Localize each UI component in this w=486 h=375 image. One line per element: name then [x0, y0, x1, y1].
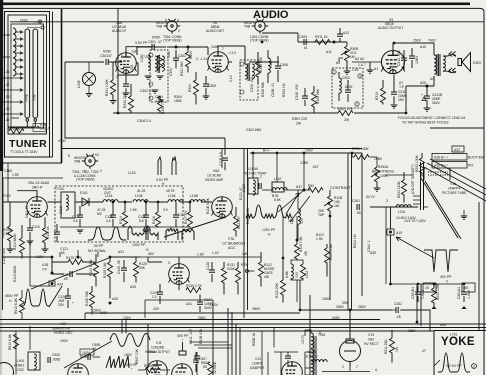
svg-text:14.5 70? 140V: 14.5 70? 140V [404, 219, 427, 223]
svg-text:R202 100K: R202 100K [415, 154, 419, 172]
flyback coil [311, 333, 313, 348]
svg-text:1.6V: 1.6V [352, 68, 360, 72]
wire to A37 [284, 189, 310, 191]
chevron arrows [449, 52, 456, 74]
svg-text:R301 100K: R301 100K [105, 78, 109, 96]
cap C911 vertical [194, 356, 200, 358]
left riser R309 [312, 92, 317, 107]
boxed label right bottom crt [462, 283, 475, 292]
svg-text:C281B1: C281B1 [411, 287, 415, 299]
svg-text:45.75: 45.75 [166, 189, 175, 193]
svg-text:1.4V: 1.4V [212, 251, 220, 255]
brightness pot [375, 167, 380, 182]
svg-text:2: 2 [356, 103, 358, 107]
svg-text:4.5: 4.5 [73, 219, 78, 223]
svg-text:8V 2.2K: 8V 2.2K [8, 127, 21, 131]
wire quad detector out [228, 61, 279, 63]
coil L201 [396, 205, 411, 207]
svg-text:L28: L28 [4, 95, 10, 99]
svg-text:AUDIO: AUDIO [253, 9, 289, 21]
tube V7B sync [169, 264, 190, 285]
svg-text:E101: E101 [80, 191, 88, 195]
TOP SHELF arrow label [33, 124, 46, 132]
svg-text:TUNER: TUNER [9, 138, 47, 150]
svg-text:25V: 25V [58, 303, 65, 307]
svg-text:R306 62K: R306 62K [259, 56, 263, 72]
svg-text:DAMPER: DAMPER [250, 366, 265, 370]
yoke pin circle [472, 364, 477, 369]
svg-text:A12: A12 [343, 31, 349, 35]
svg-text:HV RECT: HV RECT [364, 342, 379, 346]
components under V6: R304 [194, 80, 199, 95]
left edge wires [3, 178, 63, 238]
cap C305 [203, 84, 209, 86]
svg-text:50 PP: 50 PP [94, 244, 104, 248]
waveform 3.5V PP spikes [158, 157, 176, 175]
svg-text:C302: C302 [178, 54, 186, 58]
grounds in det box [77, 230, 84, 233]
V5A cathode resistor R112 [43, 228, 48, 243]
svg-text:41.5 MC TRAP: 41.5 MC TRAP [244, 172, 267, 176]
svg-text:TAB: TAB [74, 160, 81, 164]
resistor R203 220K vertical [402, 180, 407, 195]
cap C281A 1.4KV [463, 286, 465, 292]
V9 plate wire to T402 [393, 43, 434, 55]
svg-text:150V: 150V [60, 339, 69, 343]
svg-text:C112: C112 [59, 206, 63, 214]
svg-text:T102: T102 [3, 194, 11, 198]
resistor R110 680K [20, 238, 25, 253]
svg-text:C180: C180 [4, 169, 12, 173]
cap C128 [209, 270, 215, 272]
coil L903 [312, 360, 327, 362]
crt right edge echo line [478, 202, 480, 330]
svg-text:C911 .047: C911 .047 [189, 329, 193, 344]
svg-text:R252A: R252A [378, 165, 389, 169]
wire x148 v11 grid [148, 352, 156, 368]
wire riser x118 [117, 8, 119, 113]
cap C302 [173, 58, 179, 60]
resistor R306 vertical [256, 62, 261, 77]
resistor R507 vertical [208, 362, 213, 375]
svg-text:1: 1 [121, 53, 123, 57]
svg-text:C110? 600: C110? 600 [2, 248, 6, 264]
svg-text:3: 3 [116, 75, 118, 79]
svg-text:L30: L30 [4, 118, 10, 122]
cap A12 small [337, 34, 343, 36]
svg-text:280V: 280V [358, 305, 367, 309]
svg-text:R125 2.7K: R125 2.7K [66, 256, 83, 260]
resistor R52 horiz [308, 188, 323, 193]
strip bottom circles [26, 119, 29, 122]
audio section bottom rule [62, 148, 362, 150]
svg-text:150V: 150V [82, 351, 91, 355]
cap C412B electrolytic [426, 86, 428, 96]
B++ bus right [250, 152, 362, 154]
flyback core [314, 336, 316, 375]
coil L300 left of V5B [148, 55, 150, 70]
svg-text:(TOP VIEW): (TOP VIEW) [76, 178, 94, 182]
svg-text:15BV: 15BV [374, 157, 383, 161]
svg-text:L26: L26 [4, 70, 10, 74]
svg-text:HORIZ: HORIZ [14, 364, 24, 368]
damper cap [285, 356, 291, 358]
resistor R302 vertical left [129, 96, 134, 111]
svg-text:1.5K: 1.5K [130, 208, 138, 212]
audio bottom bus [113, 112, 333, 114]
T402 core [437, 54, 440, 76]
diagonal from waveform [64, 341, 112, 368]
T301 transformer dashed box [150, 50, 168, 102]
svg-text:L110: L110 [274, 177, 281, 181]
svg-text:1: 1 [333, 71, 335, 75]
trap coil box [248, 178, 258, 194]
wire y257 continuation [244, 256, 261, 258]
svg-text:V12: V12 [255, 357, 261, 361]
tuner mid box [8, 15, 47, 134]
svg-text:C305 .003: C305 .003 [250, 76, 254, 92]
resistor R251 100K [354, 155, 369, 160]
svg-text:C30B .01: C30B .01 [271, 83, 275, 97]
boxed label A30 pix [432, 162, 467, 169]
resistor R79 vertical [236, 268, 241, 283]
svg-text:3: 3 [386, 199, 388, 203]
svg-text:VTA: VTA [228, 237, 235, 241]
svg-text:L106: L106 [168, 194, 176, 198]
svg-text:A30 B+ +: A30 B+ + [434, 164, 448, 168]
junction dots buses [117, 112, 119, 114]
svg-text:A30: A30 [112, 297, 118, 301]
svg-text:5: 5 [68, 154, 70, 158]
A1 node ground [369, 62, 371, 70]
coil L106 [168, 200, 183, 202]
svg-text:A40: A40 [440, 323, 446, 327]
cap C425 [121, 268, 127, 270]
waveform 100V PP [128, 226, 148, 240]
svg-text:N750: N750 [152, 36, 160, 40]
mid vertical divider double [244, 148, 248, 318]
tube V6 [208, 52, 229, 73]
svg-text:A25: A25 [420, 81, 426, 85]
left border black bar [0, 0, 3, 171]
svg-text:PIX: PIX [468, 164, 474, 168]
junction dots audio [175, 46, 177, 48]
vertical wires mid-right [283, 216, 297, 258]
diagonal contrast wires [278, 190, 310, 222]
resistor R131 220K vertical [222, 268, 227, 283]
resistor R117 vertical [188, 212, 193, 227]
svg-text:+: + [72, 301, 74, 305]
svg-text:5: 5 [319, 331, 321, 335]
osc trimmer circles [39, 20, 42, 23]
wires sync area [52, 257, 140, 274]
T301 core [158, 55, 159, 73]
svg-text:2.2: 2.2 [152, 295, 157, 299]
circled 1 [332, 70, 336, 74]
bundle connectors [190, 342, 232, 348]
svg-text:12DQ6B: 12DQ6B [151, 346, 165, 350]
boxed label left bottom crt [423, 283, 436, 292]
speaker wires with chevrons [443, 55, 456, 73]
svg-text:3RD IF: 3RD IF [32, 186, 43, 190]
svg-text:265V: 265V [198, 316, 207, 320]
resistor R301 vertical [158, 55, 163, 70]
resistor R125 2.7K horiz [68, 260, 83, 265]
V6A top stub [221, 148, 223, 168]
wire to V6 grid [167, 47, 208, 55]
resistor R311 on bus [315, 40, 330, 45]
svg-text:C309: C309 [299, 35, 307, 39]
contrast pot R118 [329, 190, 331, 196]
cap C125 [70, 271, 72, 277]
svg-text:C425 .05: C425 .05 [117, 260, 121, 274]
vertical left wires bottom [16, 326, 30, 375]
svg-text:HORIZ OSC: HORIZ OSC [54, 331, 73, 335]
T303 dashed box [332, 68, 363, 108]
audio out wire to volume [262, 33, 347, 42]
boxed 150V label [80, 349, 94, 355]
connector T301 heater tab [164, 19, 180, 34]
L112 parallel loop [291, 260, 303, 280]
svg-text:.0047: .0047 [155, 99, 164, 103]
left margin shading [0, 170, 2, 375]
V6A plate diagonal to contrast [164, 217, 226, 237]
coil L111 vertical [298, 209, 300, 224]
waveform 650V PP bells [21, 289, 50, 306]
A15 boxed node [387, 229, 394, 235]
svg-text:R119 7.5K: R119 7.5K [299, 236, 303, 252]
svg-text:54.7V: 54.7V [366, 195, 376, 199]
svg-text:T301: T301 [167, 51, 171, 59]
tube V6A [212, 197, 233, 218]
T303 coil [338, 72, 340, 78]
svg-text:3: 3 [97, 153, 99, 157]
svg-text:YOKE: YOKE [441, 336, 475, 348]
coil L302 vertical [268, 58, 270, 73]
svg-text:AUDIO DET: AUDIO DET [206, 29, 224, 33]
tube V10 [147, 361, 168, 375]
crt bottom bus [391, 283, 465, 285]
svg-text:C302: C302 [342, 76, 350, 80]
svg-text:AUDIO OUTPUT: AUDIO OUTPUT [378, 26, 403, 30]
grounds left column [7, 249, 14, 252]
svg-text:1.9K: 1.9K [316, 237, 324, 241]
svg-text:1 & 7: 1 & 7 [358, 63, 366, 67]
svg-text:L201: L201 [398, 210, 406, 214]
svg-text:-10V: -10V [152, 307, 160, 311]
resistor R120 6.8K vertical [325, 248, 330, 263]
svg-text:R303: R303 [189, 51, 193, 59]
svg-text:4.5: 4.5 [106, 219, 111, 223]
svg-text:C305: C305 [208, 84, 216, 88]
speaker E303 [458, 53, 471, 72]
ground under coil [145, 76, 152, 79]
left edge stubs [3, 35, 11, 114]
resistor R1 2.2K [9, 129, 24, 134]
svg-text:4: 4 [177, 19, 179, 23]
svg-text:2: 2 [100, 169, 102, 173]
grid wire into socket [370, 206, 418, 208]
svg-text:265V: 265V [332, 316, 341, 320]
svg-text:.0082: .0082 [52, 358, 61, 362]
waveform 30V PP vertical dips [424, 250, 458, 272]
vertical wire from contrast [329, 216, 331, 300]
IF chain main wire [3, 201, 212, 203]
svg-text:C301: C301 [148, 40, 156, 44]
tuner contact strip bar 2 [33, 29, 38, 118]
svg-text:A4: A4 [336, 61, 340, 65]
tube V9 [381, 51, 405, 74]
ground brightness [374, 188, 381, 191]
audio lower bus to right [333, 112, 406, 114]
A24 node boxed [49, 281, 55, 286]
B++ riser stubs [253, 153, 352, 190]
svg-text:33K: 33K [139, 266, 146, 270]
svg-text:R251 100K: R251 100K [352, 147, 370, 151]
svg-text:TO TAP GIVING BEST FOCUS: TO TAP GIVING BEST FOCUS [402, 121, 449, 125]
svg-text:2: 2 [342, 365, 344, 369]
svg-text:L309: L309 [77, 80, 81, 88]
ground L309 [86, 94, 93, 97]
svg-text:R511 22K: R511 22K [384, 339, 388, 354]
svg-text:R3B7 22K: R3B7 22K [292, 117, 308, 121]
svg-text:C312 .005: C312 .005 [397, 50, 401, 66]
svg-text:FOCUS ADJUSTMENT: CONNECT LEAD: FOCUS ADJUSTMENT: CONNECT LEAD #4 [398, 116, 465, 120]
tube V13 HV rect [340, 341, 361, 362]
svg-text:2: 2 [178, 29, 180, 33]
cap C119 vertical [222, 158, 228, 160]
cap C129 [157, 292, 163, 294]
svg-text:MC: MC [97, 212, 103, 216]
svg-text:3: 3 [359, 75, 361, 79]
resistor R126 vertical [90, 292, 95, 307]
long vertical pair to bottom [348, 153, 352, 310]
svg-text:C255: C255 [300, 161, 308, 165]
svg-text:30V PP: 30V PP [440, 275, 452, 279]
cap C116 [143, 215, 149, 217]
svg-text:7: 7 [222, 47, 224, 51]
cap C114 [77, 215, 83, 217]
svg-text:3.2 KV PP: 3.2 KV PP [446, 364, 462, 368]
svg-text:T.P.: T.P. [399, 85, 405, 89]
svg-text:.05: .05 [396, 315, 401, 319]
cap bottom pair [193, 360, 199, 362]
svg-text:A35: A35 [370, 251, 376, 255]
svg-text:A37: A37 [296, 185, 302, 189]
svg-text:A9: A9 [430, 77, 434, 81]
audio input return box [65, 62, 118, 138]
svg-text:R92B 1K: R92B 1K [252, 332, 256, 346]
left if-section rules [2, 162, 62, 164]
svg-text:.0039: .0039 [344, 85, 353, 89]
svg-text:R310: R310 [375, 92, 379, 100]
T302 primary coil [245, 64, 247, 79]
resistor R125 33K [134, 262, 139, 277]
svg-text:R912 6.8K: R912 6.8K [14, 297, 18, 314]
svg-text:130V: 130V [36, 255, 45, 259]
svg-text:C261: C261 [352, 199, 360, 203]
wire strip bottom [8, 121, 35, 127]
svg-text:1.5K: 1.5K [12, 173, 20, 177]
svg-text:100V PP: 100V PP [132, 243, 146, 247]
svg-text:C308 .005: C308 .005 [295, 84, 299, 100]
svg-text:C920: C920 [52, 353, 60, 357]
V11 plate cap [179, 342, 186, 355]
crt neck verticals [421, 162, 424, 210]
video det dashed box [55, 186, 183, 242]
ground T301 [152, 90, 159, 93]
tube V5A [27, 197, 48, 218]
wire trap to L110 [262, 189, 274, 191]
cap C306 [275, 66, 281, 68]
cap C110 [27, 228, 33, 230]
svg-text:36V: 36V [148, 252, 155, 256]
wire y139 audio return [118, 138, 225, 155]
svg-text:A21: A21 [118, 250, 124, 254]
svg-text:TUN: TUN [33, 94, 37, 101]
svg-text:2: 2 [473, 365, 475, 369]
svg-text:T402: T402 [428, 39, 436, 43]
crt socket pins dotted [428, 172, 448, 175]
svg-text:3: 3 [168, 261, 170, 265]
plate wire V5B to T301 [126, 47, 154, 53]
svg-text:R307 22K: R307 22K [338, 107, 354, 111]
T402 bottom wire [406, 76, 434, 86]
svg-text:L104: L104 [105, 194, 113, 198]
left resistor R912b [20, 298, 25, 313]
antenna coil [13, 28, 16, 76]
svg-text:A38 B+ +: A38 B+ + [434, 156, 448, 160]
cap C311 [391, 92, 397, 94]
x85 stub [84, 313, 86, 320]
junction A11 [333, 41, 335, 43]
svg-text:B++: B++ [263, 149, 271, 153]
svg-text:V5A 1/2 6AU8: V5A 1/2 6AU8 [28, 181, 49, 185]
resistor R112 noise gate [259, 262, 264, 277]
diode E101 [82, 198, 89, 206]
ground R301 [110, 101, 117, 104]
svg-text:C262: C262 [394, 302, 402, 306]
B+ wire audio right [405, 86, 407, 113]
wire grid V5B [136, 47, 166, 55]
bottom divider x213 [212, 300, 214, 375]
resistor R130 2.7K [186, 288, 201, 293]
svg-text:36V: 36V [288, 219, 295, 223]
svg-text:4: 4 [375, 368, 377, 372]
svg-text:R129 10M: R129 10M [103, 262, 107, 278]
svg-text:L105: L105 [135, 194, 143, 198]
svg-text:280V: 280V [336, 305, 345, 309]
coil L309 circle [83, 73, 96, 86]
svg-text:-1.8V: -1.8V [196, 253, 205, 257]
svg-text:R311 1K: R311 1K [315, 35, 329, 39]
svg-text:1/2 38U8/6GS8: 1/2 38U8/6GS8 [222, 242, 245, 246]
svg-text:R120 6.8K: R120 6.8K [329, 243, 333, 260]
resistor R129 10M vertical [108, 262, 113, 277]
yoke waveform pulses [438, 353, 470, 372]
svg-text:A11: A11 [326, 50, 332, 54]
tuner outer box [5, 12, 50, 158]
resistor R119 7.5K with coil L112 [295, 244, 300, 259]
A18 wire left [3, 257, 53, 262]
svg-text:V13: V13 [368, 333, 374, 337]
svg-text:R306 56K: R306 56K [261, 81, 265, 97]
svg-text:R105 1.8K: R105 1.8K [246, 207, 250, 224]
cap C115 [110, 215, 116, 217]
wire x148 drop [122, 320, 148, 353]
svg-text:(TOP VIEW): (TOP VIEW) [163, 39, 181, 43]
T302 core [248, 63, 249, 81]
